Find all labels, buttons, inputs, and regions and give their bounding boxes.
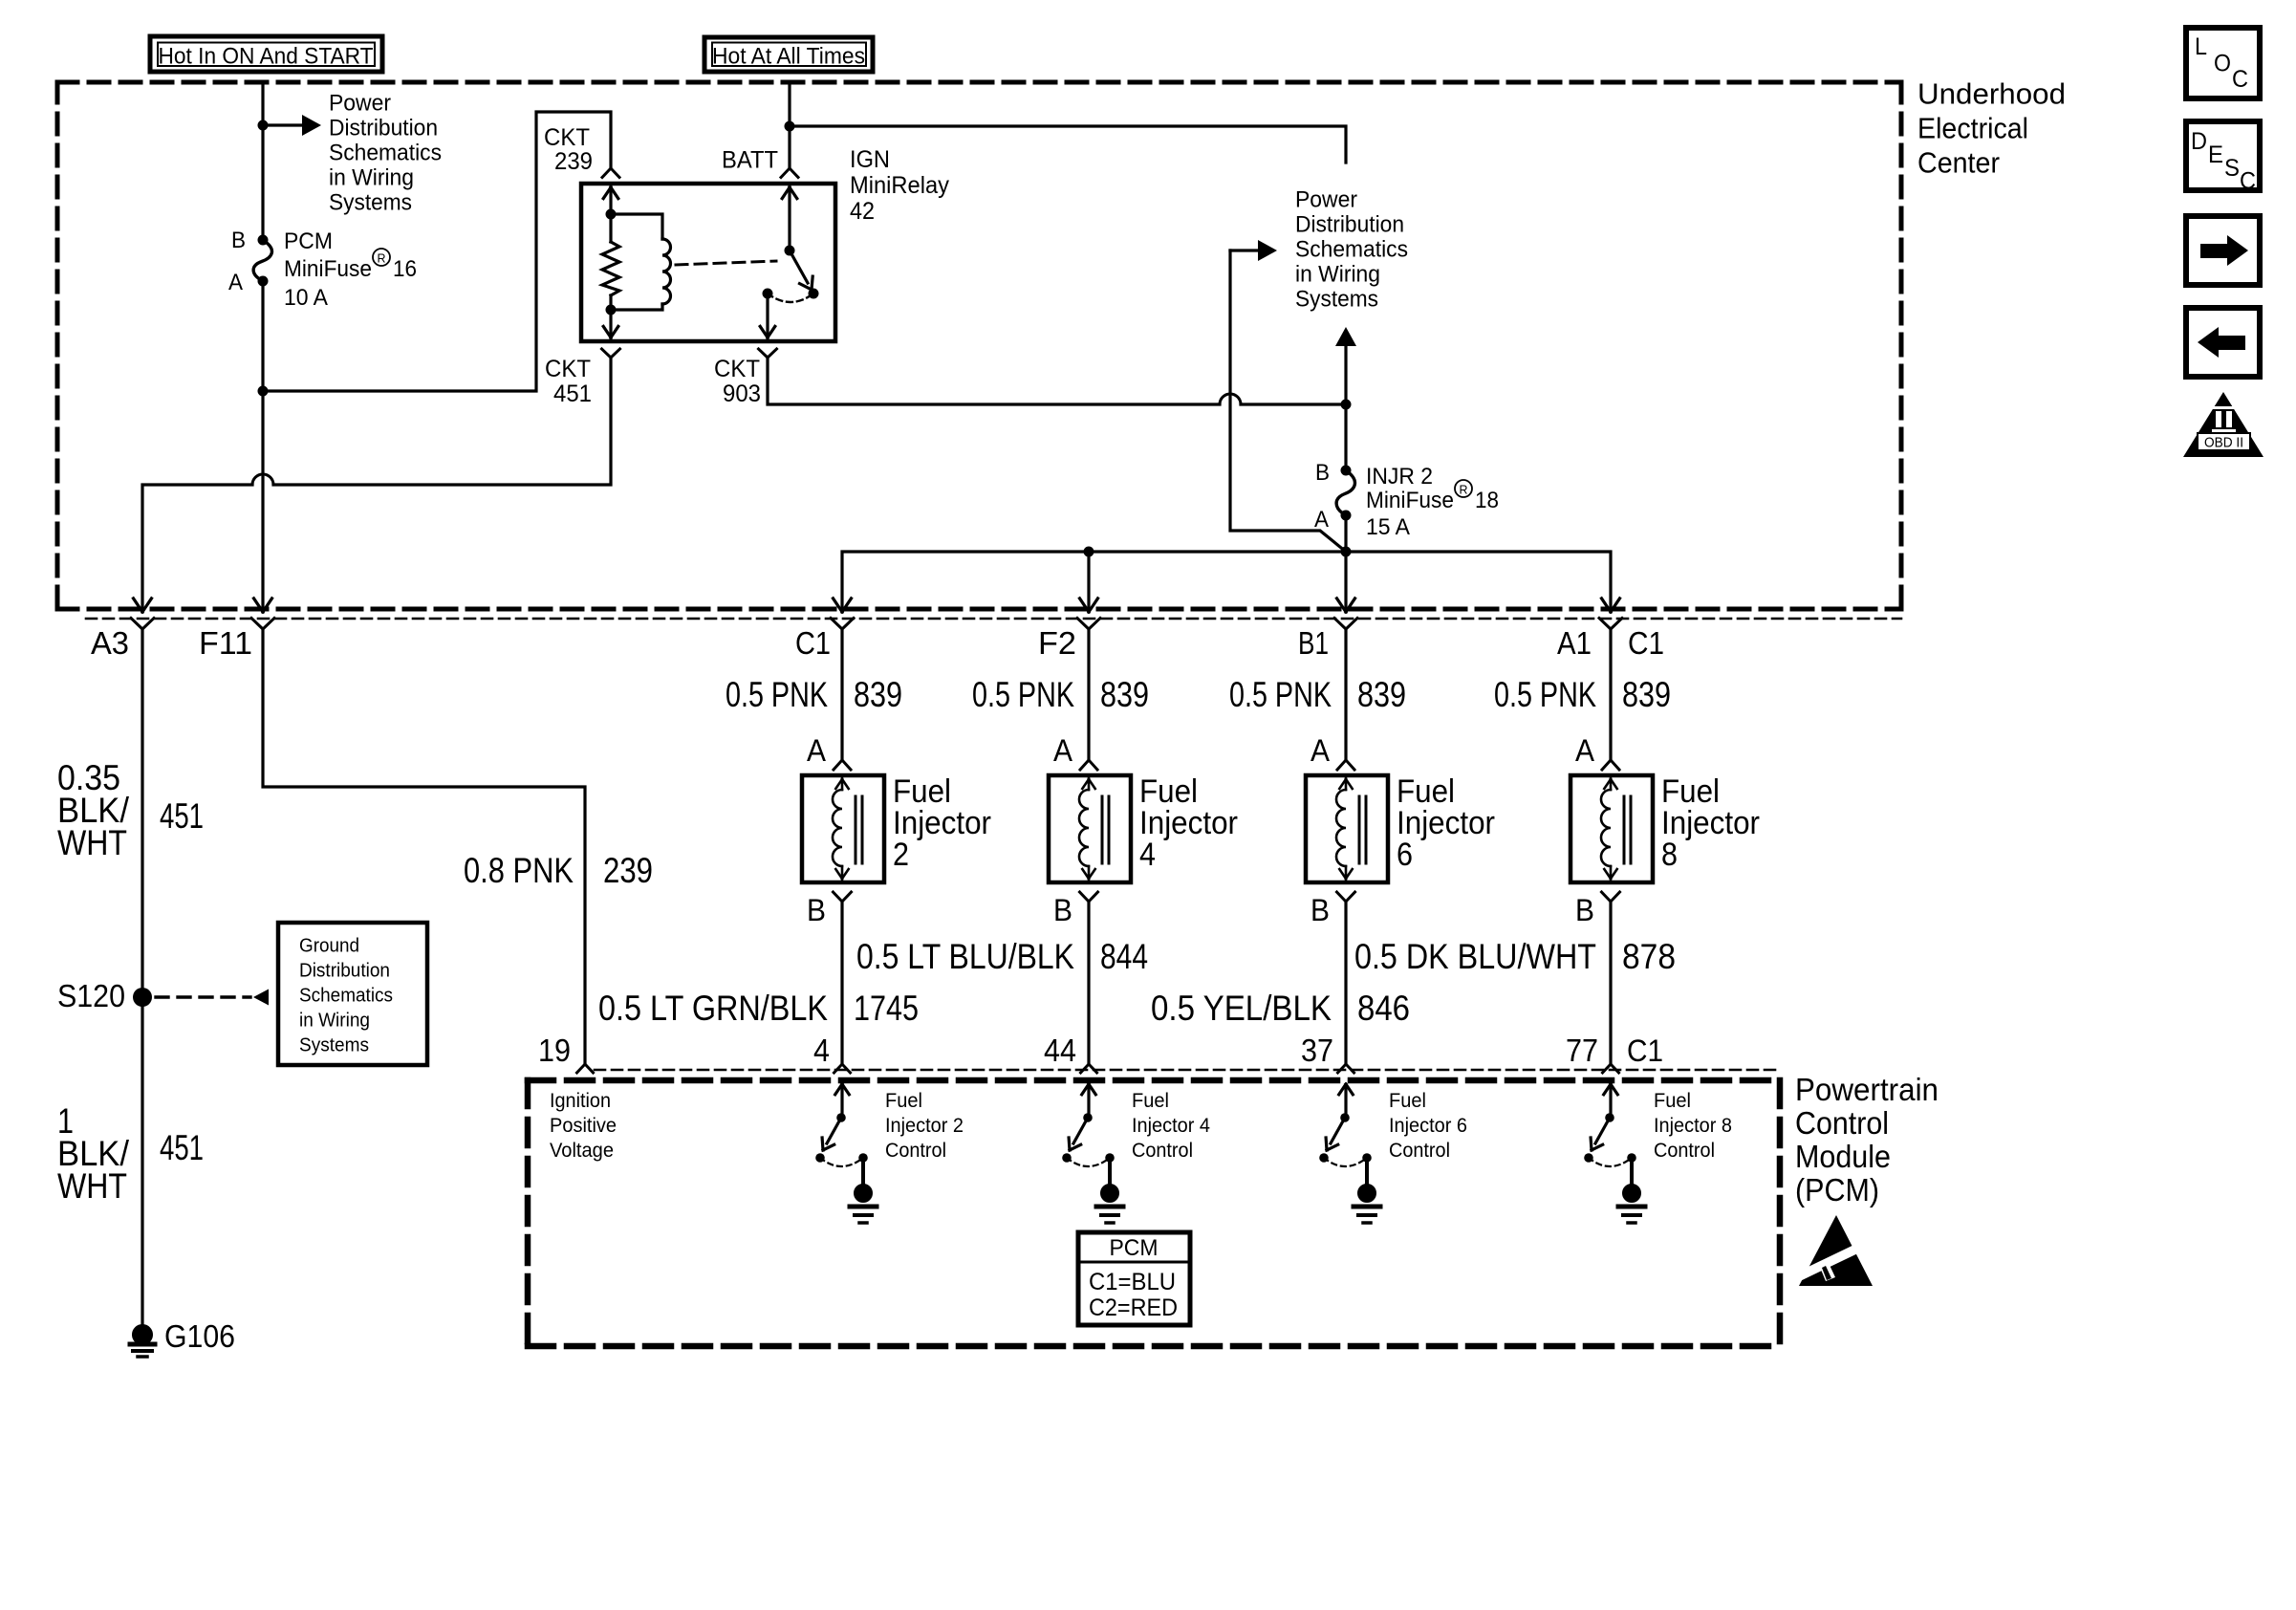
relay switch travel dashed arc bbox=[768, 294, 813, 302]
relay BATT pin line bbox=[788, 185, 791, 250]
svg-text:Systems: Systems bbox=[1295, 287, 1378, 313]
connector A3 bbox=[131, 619, 154, 630]
junction dot CKT903 / fuse 18 bbox=[1341, 400, 1352, 410]
label 878 bbox=[1622, 937, 1676, 976]
svg-text:Systems: Systems bbox=[329, 190, 412, 216]
wire 839 feed to fuel injector 4 bbox=[1087, 629, 1090, 760]
svg-text:Fuel: Fuel bbox=[1389, 1090, 1426, 1112]
junction dot BATT bbox=[785, 121, 795, 132]
label Fuel Injector 8 bbox=[1661, 773, 1760, 873]
label Underhood Electrical Center bbox=[1917, 77, 2066, 180]
fuel injector 8 bbox=[1570, 775, 1653, 882]
fuel injector 2 bbox=[802, 775, 884, 882]
junction dot bus F2 bbox=[1084, 547, 1094, 557]
connector at relay BATT pin bbox=[781, 168, 798, 178]
label 0.8 PNK bbox=[464, 851, 574, 890]
label Fuel Injector 4 bbox=[1139, 773, 1238, 873]
connector PCM pin 44 bbox=[1081, 1064, 1097, 1073]
label box Hot In ON And START bbox=[150, 36, 382, 72]
wire-end arrow at connector B1 bbox=[1337, 598, 1355, 612]
wire-end arrow at connector C1 inj2 bbox=[834, 598, 852, 612]
svg-text:OBD II: OBD II bbox=[2204, 436, 2243, 451]
label 239 bbox=[603, 851, 653, 890]
relay pin arrow down (CKT903 pin) bbox=[760, 326, 775, 337]
svg-text:E: E bbox=[2208, 141, 2223, 168]
svg-text:C: C bbox=[2240, 168, 2256, 195]
svg-text:A: A bbox=[1310, 733, 1331, 768]
svg-text:C: C bbox=[2232, 66, 2248, 93]
label F2 bbox=[1038, 625, 1076, 661]
connector PCM pin 77 bbox=[1603, 1064, 1619, 1073]
label Fuel Injector 2 Control bbox=[885, 1090, 964, 1162]
arrow up to Power Distribution reference (second) bbox=[1335, 327, 1356, 404]
svg-text:R: R bbox=[1460, 483, 1468, 497]
label Fuel Injector 4 Control bbox=[1132, 1090, 1210, 1162]
relay coil-side pin line with resistor bbox=[602, 185, 619, 339]
Underhood Electrical Center dashed enclosure bbox=[57, 82, 1901, 609]
junction dot bus B1 bbox=[1341, 547, 1352, 557]
wire 839 feed to fuel injector 2 bbox=[840, 629, 843, 760]
label pin 19 bbox=[538, 1033, 571, 1068]
svg-text:42: 42 bbox=[850, 198, 875, 225]
svg-text:839: 839 bbox=[1622, 675, 1671, 714]
PCM driver switch for injector 6 bbox=[1319, 1084, 1372, 1186]
fuse INJR 2 MiniFuse 18 element bbox=[1336, 470, 1354, 515]
svg-text:0.5 YEL/BLK: 0.5 YEL/BLK bbox=[1151, 989, 1332, 1028]
svg-text:0.5 DK BLU/WHT: 0.5 DK BLU/WHT bbox=[1354, 937, 1596, 976]
legend icon LOC bbox=[2186, 28, 2260, 98]
label 451 (upper) bbox=[160, 796, 204, 836]
connector pin A of injector 8 bbox=[1602, 760, 1619, 770]
label CKT 903 bbox=[714, 356, 761, 407]
relay pin arrow up (BATT pin) bbox=[782, 187, 797, 199]
connector PCM pin 4 bbox=[834, 1064, 851, 1073]
label pin B (inj 6) bbox=[1310, 893, 1330, 927]
wire injector 6 control to PCM pin 37 bbox=[1344, 902, 1347, 1064]
svg-text:BATT: BATT bbox=[722, 147, 778, 174]
wire 839 feed to fuel injector 6 bbox=[1344, 629, 1347, 760]
svg-text:839: 839 bbox=[1100, 675, 1149, 714]
svg-text:in Wiring: in Wiring bbox=[329, 165, 414, 191]
label A1 bbox=[1557, 625, 1592, 661]
svg-text:G106: G106 bbox=[164, 1318, 235, 1354]
label 0.35 BLK/ WHT bbox=[57, 758, 130, 862]
wire reference branch to bus junction bbox=[1230, 250, 1346, 552]
legend icon OBD II triangle bbox=[2183, 392, 2264, 457]
wire hop over F11 wire bbox=[252, 474, 273, 485]
svg-text:WHT: WHT bbox=[57, 823, 127, 862]
label 0.5 LT BLU/BLK bbox=[856, 937, 1074, 976]
connector pin B of injector 2 bbox=[834, 892, 852, 902]
wire branch to CKT 239 loop bbox=[263, 112, 611, 391]
label box Hot At All Times bbox=[704, 37, 873, 72]
connector at relay CKT239 pin bbox=[602, 168, 619, 178]
connector pin B of injector 6 bbox=[1337, 892, 1355, 902]
svg-text:C1: C1 bbox=[1628, 625, 1664, 661]
svg-text:B: B bbox=[1315, 460, 1330, 486]
svg-text:A1: A1 bbox=[1557, 625, 1592, 661]
label pin B (inj 2) bbox=[807, 893, 826, 927]
svg-text:Distribution: Distribution bbox=[1295, 212, 1404, 238]
label pin B (inj 4) bbox=[1053, 893, 1072, 927]
svg-text:Injector 4: Injector 4 bbox=[1132, 1115, 1210, 1137]
svg-text:Schematics: Schematics bbox=[1295, 237, 1408, 263]
label B1 bbox=[1298, 625, 1329, 661]
svg-text:A: A bbox=[1314, 507, 1329, 533]
wire injector 2 control to PCM pin 4 bbox=[840, 902, 843, 1064]
label pin A (inj 4) bbox=[1053, 733, 1073, 768]
label pin A (inj 2) bbox=[807, 733, 827, 768]
wire F11 to PCM pin 19 bbox=[263, 629, 585, 1064]
label B (fuse 18) bbox=[1315, 460, 1330, 486]
label pin A (inj 8) bbox=[1575, 733, 1595, 768]
connector pin A of injector 4 bbox=[1080, 760, 1097, 770]
dashed reference line from S120 bbox=[156, 990, 269, 1006]
svg-text:D: D bbox=[2191, 128, 2207, 155]
connector PCM pin 19 bbox=[577, 1064, 594, 1073]
svg-text:A: A bbox=[807, 733, 827, 768]
svg-text:A: A bbox=[1053, 733, 1073, 768]
ground symbol (injector 4 driver) bbox=[1096, 1185, 1123, 1224]
svg-text:0.5 PNK: 0.5 PNK bbox=[1229, 675, 1332, 714]
label 839 (inj 6) bbox=[1357, 675, 1406, 714]
label 0.5 PNK (inj 8) bbox=[1494, 675, 1596, 714]
PCM driver switch for injector 2 bbox=[815, 1084, 868, 1186]
svg-text:Systems: Systems bbox=[299, 1035, 369, 1056]
svg-text:O: O bbox=[2214, 51, 2231, 77]
label pin 77 bbox=[1566, 1033, 1598, 1068]
svg-text:F2: F2 bbox=[1038, 625, 1076, 661]
svg-text:Control: Control bbox=[1132, 1140, 1193, 1162]
svg-text:Fuel: Fuel bbox=[1132, 1090, 1169, 1112]
label 839 (inj 8) bbox=[1622, 675, 1671, 714]
svg-text:16: 16 bbox=[393, 256, 417, 282]
connector pin A of injector 2 bbox=[834, 760, 851, 770]
relay pin arrow down (CKT451 pin) bbox=[603, 326, 618, 337]
svg-text:77: 77 bbox=[1566, 1033, 1598, 1068]
svg-text:Injector 6: Injector 6 bbox=[1389, 1115, 1467, 1137]
label F11 bbox=[199, 625, 252, 661]
wire-end arrow at connector F11 bbox=[254, 598, 272, 612]
label C1 at pin 77 bbox=[1627, 1033, 1663, 1068]
svg-text:Fuel: Fuel bbox=[885, 1090, 922, 1112]
fuse INJR 2 MiniFuse 18 terminal A dot bbox=[1341, 511, 1352, 521]
label CKT 239 bbox=[544, 124, 593, 175]
injector supply bus wire bbox=[842, 552, 1611, 612]
junction dot at CKT239 branch bbox=[258, 386, 269, 397]
svg-text:Center: Center bbox=[1917, 146, 2000, 180]
label pin 4 bbox=[813, 1033, 830, 1068]
wire-end arrow at connector A3 bbox=[134, 598, 152, 612]
svg-text:B: B bbox=[1575, 893, 1594, 927]
svg-text:L: L bbox=[2195, 33, 2207, 60]
svg-text:Injector 2: Injector 2 bbox=[885, 1115, 964, 1137]
svg-text:B: B bbox=[231, 228, 246, 253]
label 1 BLK/ WHT bbox=[57, 1101, 130, 1206]
svg-text:S: S bbox=[2224, 155, 2240, 182]
svg-text:Positive: Positive bbox=[550, 1115, 617, 1137]
splice S120 dot bbox=[133, 988, 152, 1007]
svg-text:451: 451 bbox=[160, 1128, 204, 1167]
svg-text:Schematics: Schematics bbox=[329, 141, 442, 166]
wire fuse 16 A down to F11 arrow bbox=[261, 281, 264, 612]
arrow to Power Distribution reference (left) bbox=[263, 115, 321, 136]
label BATT bbox=[722, 147, 778, 174]
svg-text:2: 2 bbox=[893, 837, 909, 873]
legend icon arrow left bbox=[2186, 308, 2260, 377]
wire A3 to G106 bbox=[141, 629, 143, 1327]
wire CKT903 from relay to INJR2 fuse junction bbox=[768, 358, 1346, 404]
wire fuse 18 A to bus bbox=[1344, 515, 1347, 552]
PCM driver switch for injector 8 bbox=[1584, 1084, 1636, 1186]
svg-text:878: 878 bbox=[1622, 937, 1676, 976]
label C1 (right of A1) bbox=[1628, 625, 1664, 661]
svg-text:MiniFuse: MiniFuse bbox=[284, 256, 372, 282]
svg-text:Voltage: Voltage bbox=[550, 1140, 614, 1162]
svg-text:Module: Module bbox=[1795, 1139, 1891, 1174]
wire injector 4 control to PCM pin 44 bbox=[1087, 902, 1090, 1064]
wire-end arrow at connector F2 bbox=[1080, 598, 1098, 612]
svg-text:Distribution: Distribution bbox=[299, 961, 390, 982]
label Fuel Injector 8 Control bbox=[1654, 1090, 1732, 1162]
svg-text:44: 44 bbox=[1044, 1033, 1076, 1068]
label box Ground Distribution Schematics in Wiring Systems bbox=[278, 923, 427, 1065]
wire injector 8 control to PCM pin 77 bbox=[1609, 902, 1612, 1064]
fuse INJR 2 MiniFuse 18 terminal B dot bbox=[1341, 466, 1352, 476]
label INJR 2 MiniFuse 18 15 A bbox=[1366, 464, 1499, 540]
label 1745 bbox=[854, 989, 919, 1028]
label Fuel Injector 2 bbox=[893, 773, 991, 873]
connector pin B of injector 4 bbox=[1080, 892, 1098, 902]
connector A1/C1 bbox=[1599, 619, 1622, 630]
svg-text:Fuel: Fuel bbox=[1654, 1090, 1691, 1112]
svg-text:MiniRelay: MiniRelay bbox=[850, 172, 949, 199]
label B (fuse 16) bbox=[231, 228, 246, 253]
svg-text:Ground: Ground bbox=[299, 936, 359, 957]
svg-text:A: A bbox=[1575, 733, 1595, 768]
svg-text:PCM: PCM bbox=[284, 228, 333, 254]
svg-text:1745: 1745 bbox=[854, 989, 919, 1028]
svg-text:4: 4 bbox=[813, 1033, 830, 1068]
svg-text:Power: Power bbox=[1295, 187, 1357, 213]
svg-text:15 A: 15 A bbox=[1366, 514, 1410, 540]
connector face dashed line (UEC bottom connectors) bbox=[86, 618, 1901, 620]
svg-text:Electrical: Electrical bbox=[1917, 112, 2028, 145]
label Fuel Injector 6 bbox=[1397, 773, 1495, 873]
svg-text:0.5 PNK: 0.5 PNK bbox=[726, 675, 828, 714]
svg-text:C1: C1 bbox=[795, 625, 831, 661]
wire BATT junction to Power Distribution arrow (right) bbox=[790, 126, 1356, 182]
svg-text:Hot At All Times: Hot At All Times bbox=[712, 44, 865, 70]
svg-text:Hot In ON And START: Hot In ON And START bbox=[159, 44, 374, 70]
label 451 (lower) bbox=[160, 1128, 204, 1167]
PCM driver switch for injector 4 bbox=[1062, 1084, 1115, 1186]
label pin 44 bbox=[1044, 1033, 1076, 1068]
ground symbol (injector 2 driver) bbox=[850, 1185, 877, 1224]
svg-text:INJR 2: INJR 2 bbox=[1366, 464, 1433, 490]
connector PCM pin 37 bbox=[1338, 1064, 1354, 1073]
label 0.5 YEL/BLK bbox=[1151, 989, 1332, 1028]
relay coil winding bbox=[611, 214, 671, 310]
relay coil branch junction dots bbox=[606, 209, 617, 315]
svg-text:B: B bbox=[1310, 893, 1330, 927]
svg-text:Control: Control bbox=[1795, 1105, 1889, 1141]
relay output pin line bbox=[766, 294, 769, 339]
svg-text:903: 903 bbox=[723, 381, 761, 407]
label Power Distribution Schematics in Wiring Systems (left) bbox=[329, 91, 442, 216]
label Powertrain Control Module (PCM) bbox=[1795, 1072, 1939, 1207]
svg-text:C1=BLU: C1=BLU bbox=[1089, 1269, 1176, 1295]
svg-text:0.5 LT GRN/BLK: 0.5 LT GRN/BLK bbox=[598, 989, 828, 1028]
relay switch pivot dot bbox=[785, 246, 795, 256]
label 0.5 PNK (inj 2) bbox=[726, 675, 828, 714]
svg-text:C1: C1 bbox=[1627, 1033, 1663, 1068]
svg-text:B: B bbox=[807, 893, 826, 927]
label C1 (inj2 feed) bbox=[795, 625, 831, 661]
ground symbol (injector 8 driver) bbox=[1618, 1185, 1645, 1224]
label 839 (inj 4) bbox=[1100, 675, 1149, 714]
svg-text:Control: Control bbox=[1654, 1140, 1715, 1162]
connector F2 bbox=[1077, 619, 1100, 630]
svg-text:37: 37 bbox=[1301, 1033, 1333, 1068]
svg-text:239: 239 bbox=[554, 148, 593, 175]
legend icon DESC bbox=[2186, 121, 2260, 195]
junction dot on ignition feed bbox=[258, 120, 269, 131]
svg-text:6: 6 bbox=[1397, 837, 1413, 873]
svg-text:0.8 PNK: 0.8 PNK bbox=[464, 851, 574, 890]
svg-text:(PCM): (PCM) bbox=[1795, 1172, 1879, 1207]
svg-text:S120: S120 bbox=[57, 978, 125, 1013]
fuel injector 4 bbox=[1049, 775, 1131, 882]
label CKT 451 bbox=[545, 356, 592, 407]
svg-text:B: B bbox=[1053, 893, 1072, 927]
label 846 bbox=[1357, 989, 1410, 1028]
svg-text:Power: Power bbox=[329, 91, 391, 117]
svg-text:4: 4 bbox=[1139, 837, 1156, 873]
fuse PCM MiniFuse 16 element bbox=[253, 240, 271, 281]
svg-text:19: 19 bbox=[538, 1033, 571, 1068]
relay pin arrow up (CKT239 pin) bbox=[603, 187, 618, 199]
label S120 bbox=[57, 978, 125, 1013]
svg-text:8: 8 bbox=[1661, 837, 1678, 873]
label PCM MiniFuse 16 10 A bbox=[284, 228, 417, 311]
arrow to Power Distribution reference (mid) bbox=[1230, 240, 1277, 261]
label G106 bbox=[164, 1318, 235, 1354]
svg-text:0.5 PNK: 0.5 PNK bbox=[972, 675, 1074, 714]
svg-text:839: 839 bbox=[854, 675, 902, 714]
wire from Hot In ON And START down to fuse 16 terminal B bbox=[261, 84, 264, 240]
label 0.5 DK BLU/WHT bbox=[1354, 937, 1596, 976]
svg-text:in Wiring: in Wiring bbox=[299, 1011, 370, 1032]
svg-text:in Wiring: in Wiring bbox=[1295, 262, 1380, 288]
connector pin B of injector 8 bbox=[1602, 892, 1620, 902]
relay IGN MiniRelay 42 body bbox=[581, 184, 835, 341]
svg-text:CKT: CKT bbox=[714, 356, 760, 382]
svg-text:Schematics: Schematics bbox=[299, 986, 393, 1007]
Powertrain Control Module dashed enclosure bbox=[528, 1080, 1780, 1346]
svg-text:B1: B1 bbox=[1298, 625, 1329, 661]
connector at relay CKT903 pin bbox=[759, 349, 777, 358]
ground G106 symbol bbox=[130, 1325, 155, 1358]
wire fuse 18 B feed bbox=[1344, 404, 1347, 470]
svg-text:F11: F11 bbox=[199, 625, 252, 661]
svg-text:Distribution: Distribution bbox=[329, 116, 438, 141]
svg-text:Underhood: Underhood bbox=[1917, 77, 2066, 111]
svg-text:PCM: PCM bbox=[1110, 1235, 1159, 1261]
label A (fuse 18) bbox=[1314, 507, 1329, 533]
svg-text:CKT: CKT bbox=[545, 356, 591, 382]
label pin 37 bbox=[1301, 1033, 1333, 1068]
fuse PCM MiniFuse 16 terminal A dot bbox=[258, 276, 269, 287]
label pin B (inj 8) bbox=[1575, 893, 1594, 927]
fuel injector 6 bbox=[1306, 775, 1388, 882]
PCM connector color legend box bbox=[1078, 1232, 1190, 1325]
ground symbol (injector 6 driver) bbox=[1354, 1185, 1380, 1224]
svg-text:Powertrain: Powertrain bbox=[1795, 1072, 1939, 1107]
svg-text:C2=RED: C2=RED bbox=[1089, 1295, 1178, 1321]
label A (fuse 16) bbox=[228, 270, 243, 295]
connector C1 inj2 bbox=[831, 619, 854, 630]
legend icon arrow right bbox=[2186, 216, 2260, 285]
svg-text:A: A bbox=[228, 270, 243, 295]
relay switch blade arrow bbox=[790, 250, 812, 290]
relay actuation dashed link bbox=[676, 261, 776, 265]
wire Hot At All Times down to relay BATT pin bbox=[788, 84, 791, 168]
ESD sensitive device symbol bbox=[1790, 1215, 1873, 1286]
svg-text:451: 451 bbox=[160, 796, 204, 836]
connector F11 bbox=[251, 619, 274, 630]
label Power Distribution Schematics in Wiring Systems (right) bbox=[1295, 187, 1408, 313]
connector pin A of injector 6 bbox=[1337, 760, 1354, 770]
label 0.5 PNK (inj 4) bbox=[972, 675, 1074, 714]
label 0.5 LT GRN/BLK bbox=[598, 989, 828, 1028]
svg-text:10 A: 10 A bbox=[284, 285, 328, 311]
svg-text:Injector 8: Injector 8 bbox=[1654, 1115, 1732, 1137]
label IGN MiniRelay 42 bbox=[850, 146, 949, 225]
fuse PCM MiniFuse 16 terminal B dot bbox=[258, 235, 269, 246]
relay switch contact dots bbox=[763, 289, 819, 299]
svg-text:451: 451 bbox=[553, 381, 592, 407]
wire hop over reference wire bbox=[1220, 394, 1241, 404]
svg-text:IGN: IGN bbox=[850, 146, 890, 173]
svg-text:Control: Control bbox=[885, 1140, 946, 1162]
svg-text:A3: A3 bbox=[91, 625, 129, 661]
svg-text:MiniFuse: MiniFuse bbox=[1366, 488, 1454, 513]
svg-text:CKT: CKT bbox=[544, 124, 590, 151]
wire-end arrow at connector A1/C1 bbox=[1602, 598, 1620, 612]
svg-text:Ignition: Ignition bbox=[550, 1090, 611, 1112]
wire 839 feed to fuel injector 8 bbox=[1609, 629, 1612, 760]
connector at relay CKT451 pin bbox=[602, 349, 620, 358]
svg-text:839: 839 bbox=[1357, 675, 1406, 714]
svg-text:0.5 LT BLU/BLK: 0.5 LT BLU/BLK bbox=[856, 937, 1074, 976]
label 839 (inj 2) bbox=[854, 675, 902, 714]
svg-text:Control: Control bbox=[1389, 1140, 1450, 1162]
label Ignition Positive Voltage bbox=[550, 1090, 617, 1162]
svg-text:239: 239 bbox=[603, 851, 653, 890]
svg-text:18: 18 bbox=[1475, 488, 1499, 513]
svg-text:846: 846 bbox=[1357, 989, 1410, 1028]
label 0.5 PNK (inj 6) bbox=[1229, 675, 1332, 714]
connector B1 bbox=[1334, 619, 1357, 630]
label 844 bbox=[1100, 937, 1148, 976]
svg-text:0.5 PNK: 0.5 PNK bbox=[1494, 675, 1596, 714]
bus drop wire B1 bbox=[1344, 552, 1347, 612]
svg-text:844: 844 bbox=[1100, 937, 1148, 976]
svg-text:WHT: WHT bbox=[57, 1166, 127, 1206]
svg-text:R: R bbox=[378, 251, 386, 266]
PCM connector face dashed line bbox=[595, 1069, 1776, 1072]
